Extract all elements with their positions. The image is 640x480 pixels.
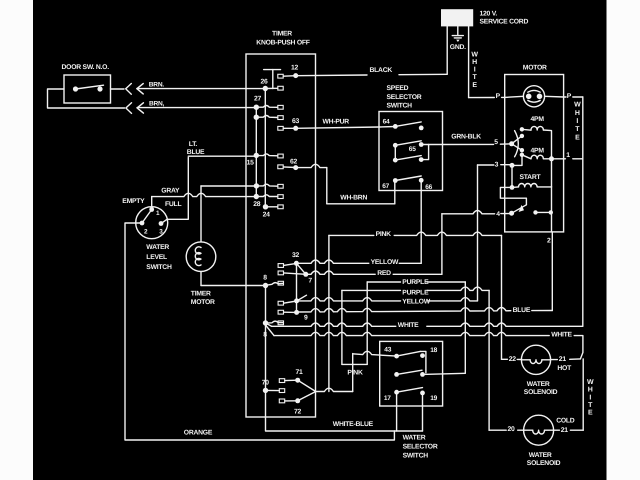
svg-text:67: 67: [382, 183, 389, 190]
wire 22 stub2: [517, 358, 521, 360]
svg-text:W: W: [574, 102, 581, 109]
wire dot-f to WHITE row1: [266, 323, 272, 326]
door switch contact right: [97, 86, 102, 91]
svg-text:W: W: [471, 51, 478, 58]
svg-text:4PM: 4PM: [531, 148, 545, 155]
svg-text:21: 21: [561, 427, 569, 434]
timer contact 63 dot: [293, 126, 298, 131]
water level contact 3: [159, 221, 164, 226]
svg-text:YELLOW: YELLOW: [402, 299, 430, 306]
svg-text:TIMER: TIMER: [272, 31, 292, 38]
contact square 9: [278, 310, 283, 314]
wire PINK riser: [328, 235, 330, 391]
svg-text:SERVICE CORD: SERVICE CORD: [480, 19, 529, 26]
wire motor4 row seg2: [501, 213, 512, 215]
wire door switch left loop: [48, 89, 125, 108]
wire start right down to switch: [551, 187, 553, 213]
wire PURPLE2 drop to solenoid 20: [488, 290, 490, 430]
svg-text:H: H: [472, 59, 477, 66]
svg-text:BRN,: BRN,: [149, 101, 165, 108]
wire dot1 down to start right: [551, 159, 553, 187]
wire timer motor top riser: [200, 186, 202, 242]
svg-text:17: 17: [384, 395, 391, 402]
wire square63 to dot63: [283, 127, 296, 129]
wire start switch loop: [500, 187, 526, 204]
wire square72 to dot72: [285, 400, 298, 402]
svg-text:120 V.: 120 V.: [480, 10, 498, 17]
svg-text:24: 24: [263, 212, 271, 219]
coil 4PM lower: [531, 155, 543, 159]
timer contact 8 dot: [263, 283, 268, 288]
motor box: [505, 75, 564, 232]
arm 27 to square: [256, 106, 278, 108]
timer contact 72 dot: [295, 398, 300, 403]
wsel blade top: [397, 351, 421, 356]
wire contact1 riser: [151, 197, 153, 208]
speed contact 64 dot: [393, 124, 398, 129]
connector chevron upper: [126, 84, 132, 95]
speed right dot 3: [419, 157, 424, 162]
wire white riser hot21 to cold21: [582, 359, 584, 430]
svg-text:LEVEL: LEVEL: [146, 254, 167, 261]
wire square32 to dot32: [284, 263, 297, 265]
wire RED row from 7: [306, 271, 375, 274]
wire square12 to dot12: [283, 75, 296, 78]
svg-text:SWITCH: SWITCH: [403, 453, 429, 460]
wire YELLOW row 32 to speed 66: [296, 260, 368, 263]
wire 62 row: [296, 164, 327, 167]
svg-text:1: 1: [566, 152, 570, 159]
contact square 32: [278, 264, 283, 268]
speed left interconnect: [394, 145, 396, 160]
svg-text:WH-BRN: WH-BRN: [340, 195, 367, 202]
motor brush left: [526, 94, 532, 100]
wire 5 to upper contact: [512, 136, 522, 144]
svg-text:FULL: FULL: [165, 201, 181, 208]
svg-text:RED: RED: [377, 270, 391, 277]
wire 43 row: [353, 351, 397, 356]
wire 21 cold stub1: [554, 429, 560, 431]
wire PURPLE1 drop: [464, 282, 466, 373]
speed blade 2: [395, 141, 421, 146]
wire timer motor to timer 8: [201, 285, 266, 287]
wire dot-f slant to WHITE row2: [266, 325, 275, 336]
wire motor 1 row seg1: [552, 158, 566, 160]
wire WHITE riser to motor P right: [582, 97, 584, 326]
svg-text:64: 64: [383, 119, 390, 126]
svg-text:WHITE: WHITE: [398, 322, 419, 329]
arm c to square: [256, 184, 278, 186]
timer contact 70 dot: [263, 388, 268, 393]
hot coil lead right: [542, 359, 551, 361]
wire GRN-BLK seg2: [500, 143, 511, 145]
svg-text:43: 43: [384, 347, 391, 354]
wire YELLOW2 riser to motor 3: [477, 165, 479, 301]
svg-text:I: I: [474, 67, 476, 74]
motor start sw lower dot: [520, 148, 524, 152]
svg-text:9: 9: [304, 315, 308, 322]
svg-text:PINK: PINK: [376, 231, 392, 238]
timer contact 7 dot: [303, 272, 308, 277]
page right white margin: [607, 0, 640, 480]
wire PURPLE1 row: [367, 281, 400, 283]
ground triangle: [456, 40, 459, 42]
timer motor coil: [195, 247, 201, 266]
contact square 27: [278, 105, 283, 109]
svg-text:SPEED: SPEED: [387, 85, 409, 92]
arm f to square f: [266, 321, 284, 323]
svg-text:72: 72: [294, 409, 302, 416]
wire BLUE row 9? to motor 2: [297, 308, 511, 313]
ground bar 2: [454, 37, 461, 39]
timer motor circle: [186, 242, 216, 272]
cold coil lead left: [524, 429, 533, 431]
svg-text:8: 8: [263, 275, 267, 282]
contact square c: [278, 184, 283, 188]
timer knob T bar: [264, 69, 281, 71]
wire YELLOW2 row 9->motor3: [297, 298, 401, 301]
svg-text:5: 5: [494, 139, 498, 146]
speed contact 66 dot: [419, 178, 424, 183]
timer contact 12 dot: [293, 73, 298, 78]
svg-text:WATER: WATER: [527, 381, 550, 388]
speed left dot 3: [393, 158, 398, 163]
arm b to square: [256, 116, 278, 118]
wire wsel 17 drop: [396, 392, 398, 431]
wire riser to speed 67: [394, 181, 396, 204]
svg-text:P: P: [567, 93, 572, 100]
wire 3 down to start coil dot: [511, 165, 513, 187]
ground stem: [457, 26, 459, 35]
contact square 12: [278, 74, 283, 78]
cold coil lead right: [545, 429, 554, 431]
speed contact 65 dot: [419, 142, 424, 147]
contact square f: [278, 321, 283, 325]
svg-text:32: 32: [292, 252, 300, 259]
svg-text:LT.: LT.: [189, 141, 198, 148]
water level contact 1: [149, 207, 154, 212]
motor brush right: [537, 94, 543, 100]
wire 21 hot stub2: [570, 358, 581, 360]
svg-text:66: 66: [425, 184, 432, 191]
water selector switch box: [380, 341, 443, 406]
svg-text:SWITCH: SWITCH: [146, 264, 172, 271]
wsel blade mid: [397, 370, 422, 374]
wire 21 hot stub1: [551, 359, 558, 361]
speed right dot 1: [419, 126, 424, 131]
start switch dot a: [533, 210, 537, 214]
cold coil loops: [533, 430, 545, 434]
svg-text:T: T: [588, 402, 593, 409]
wire BLUE riser to motor 2: [551, 232, 553, 311]
wsel blade bottom: [397, 388, 423, 393]
wire timer motor to timer dot c: [201, 185, 257, 187]
svg-text:W: W: [587, 379, 594, 386]
contact square 7: [278, 271, 283, 275]
svg-text:MOTOR: MOTOR: [191, 299, 215, 306]
start switch blade: [512, 205, 527, 213]
connector arrow lower: [137, 103, 143, 113]
wire square-e dot-e blade: [284, 295, 307, 303]
svg-text:18: 18: [430, 347, 437, 354]
water solenoid COLD circle: [524, 415, 554, 445]
timer contact 71 dot: [295, 378, 300, 383]
wire motor3 row seg2: [501, 164, 512, 166]
connector arrow upper: [137, 84, 143, 94]
timer contact 32 dot: [294, 261, 299, 266]
start coil left dot: [510, 185, 515, 190]
svg-text:GRAY: GRAY: [161, 188, 180, 195]
timer bus line 2 upper: [264, 89, 266, 207]
svg-text:E: E: [575, 134, 580, 141]
contact square 24: [278, 205, 283, 209]
hot coil lead left: [522, 359, 531, 361]
svg-text:15: 15: [247, 160, 255, 167]
wire bus2 down to WHITE-BLUE row A: [266, 390, 423, 431]
wire 20 stub2: [518, 429, 524, 431]
speed blade 1: [395, 122, 421, 127]
svg-text:PURPLE: PURPLE: [402, 289, 429, 296]
svg-text:SWITCH: SWITCH: [387, 103, 413, 110]
wire square71 to dot71: [285, 379, 298, 381]
contact square d: [278, 281, 283, 285]
wire motor3 row seg1: [478, 164, 494, 166]
svg-text:H: H: [575, 110, 580, 117]
wire riser speed 66: [420, 180, 422, 263]
wire wsel 19 drop: [422, 393, 424, 431]
start switch dot b: [549, 210, 553, 214]
svg-text:BRN.: BRN.: [149, 82, 165, 89]
wire plug left leg (BLACK) drop: [446, 26, 448, 74]
svg-text:26: 26: [260, 79, 268, 86]
contact square 28: [278, 195, 283, 199]
speed blade 4: [395, 176, 421, 181]
blade 71 junction: [298, 380, 316, 391]
wire square9 to dot9: [284, 311, 297, 313]
svg-text:GND.: GND.: [450, 44, 466, 51]
svg-text:COLD: COLD: [556, 418, 575, 425]
svg-text:ORANGE: ORANGE: [184, 430, 213, 437]
wire to start coil: [512, 186, 519, 189]
wire WHITE row1: [272, 323, 396, 326]
coil START: [519, 183, 538, 186]
svg-text:DOOR SW. N.O.: DOOR SW. N.O.: [62, 64, 110, 71]
wsel right mid dot: [420, 372, 425, 377]
wsel left mid dot: [394, 372, 399, 377]
contact square b: [278, 116, 283, 120]
stair horizontal D: [342, 363, 367, 365]
wire square62 to dot62: [283, 166, 296, 169]
wire 71/72 row to pink riser: [316, 388, 353, 391]
wire upper coil left: [522, 128, 531, 131]
wire timer motor bottom riser: [200, 272, 202, 285]
timer contact 26 dot: [263, 86, 268, 91]
speed left dot 2: [393, 143, 398, 148]
water level contact 2: [140, 221, 145, 226]
wire GRAY to timer: [152, 193, 257, 196]
speed selector switch box: [379, 112, 443, 191]
wsel contact 43 dot: [394, 354, 399, 359]
wire BRN lower to timer 27: [137, 107, 256, 109]
timer knob T stem: [272, 70, 274, 89]
wire P right stub1: [564, 96, 566, 98]
svg-text:I: I: [589, 394, 591, 401]
contact square e: [278, 301, 283, 305]
svg-text:WHITE: WHITE: [551, 332, 572, 339]
svg-text:20: 20: [508, 426, 516, 433]
svg-text:YELLOW: YELLOW: [371, 259, 399, 266]
svg-text:BLACK: BLACK: [370, 67, 393, 74]
svg-text:21: 21: [559, 356, 567, 363]
wire LT.BLUE row to timer 15: [188, 155, 256, 157]
motor contact 3 dot: [510, 163, 515, 168]
wire WH-PUR 63 to speed 64: [296, 127, 396, 129]
svg-text:WATER: WATER: [403, 435, 426, 442]
motor arc bottom: [528, 100, 540, 102]
motor winding lower-left dot: [520, 153, 524, 157]
svg-text:12: 12: [291, 65, 299, 72]
wire LT.BLUE down to contact 3: [161, 158, 188, 224]
wire WH-BRN row: [327, 203, 395, 205]
svg-text:KNOB-PUSH OFF: KNOB-PUSH OFF: [256, 40, 309, 47]
wire motor 2 inside drop: [551, 212, 553, 232]
svg-text:SOLENOID: SOLENOID: [527, 460, 561, 467]
svg-text:HOT: HOT: [557, 365, 572, 372]
wsel contact 19 dot: [420, 391, 425, 396]
wire RED riser to motor 4 row: [441, 214, 443, 274]
contact square 71: [279, 379, 284, 383]
wire 22 stub1: [502, 358, 508, 360]
start switch arrow: [519, 205, 524, 212]
motor arc top: [528, 90, 540, 92]
motor contact 5 dot: [509, 141, 514, 146]
speed contact 67 dot: [393, 178, 398, 183]
wire BRN upper to timer 26: [137, 88, 265, 90]
svg-text:WATER: WATER: [146, 244, 169, 251]
wire 26 to T stem and square: [265, 87, 278, 89]
timer contact 28 dot: [254, 194, 259, 199]
timer contact 15 dot: [254, 153, 259, 158]
motor armature circle: [523, 86, 544, 107]
coil 4PM upper: [531, 126, 543, 130]
wsel interconnect: [420, 351, 426, 372]
svg-text:PURPLE: PURPLE: [402, 279, 429, 286]
door switch blade: [76, 85, 104, 89]
water level blade 2-1: [142, 210, 152, 224]
motor contact 4 dot: [509, 211, 514, 216]
wire WHITE row2: [274, 332, 549, 335]
ground bar 1: [452, 35, 463, 37]
wire dot70 to square70: [266, 389, 280, 391]
stair horizontal B: [342, 289, 367, 291]
svg-text:71: 71: [295, 369, 303, 376]
door switch box: [64, 75, 111, 103]
svg-text:PINK: PINK: [347, 369, 363, 376]
svg-text:TIMER: TIMER: [191, 291, 211, 298]
arm 15 to square: [256, 154, 278, 156]
timer mid dot b: [254, 115, 259, 120]
svg-text:4PM: 4PM: [531, 116, 545, 123]
svg-text:BLUE: BLUE: [187, 149, 205, 156]
contact square 70: [279, 389, 284, 393]
wire dot24 to square24: [266, 206, 278, 208]
svg-text:EMPTY: EMPTY: [122, 198, 145, 205]
svg-text:62: 62: [290, 159, 298, 166]
wire PURPLE2 row: [367, 289, 400, 291]
wsel contact 17 dot: [394, 390, 399, 395]
wire lower coil right to dot1: [543, 158, 551, 160]
timer contact 27 dot: [254, 105, 259, 110]
wire square7 to dot7: [284, 273, 306, 274]
hot coil loops: [530, 360, 542, 364]
timer box: [246, 54, 316, 417]
arm 28 to square: [256, 195, 278, 197]
svg-text:SELECTOR: SELECTOR: [387, 94, 422, 101]
wire 3 to lower coil riser: [512, 155, 522, 166]
riser 43/71: [352, 354, 354, 392]
svg-text:GRN-BLK: GRN-BLK: [451, 134, 481, 141]
door switch contact left: [73, 86, 78, 91]
connector chevron lower: [126, 103, 132, 114]
timer dot e: [294, 298, 299, 303]
water solenoid HOT circle: [521, 345, 550, 374]
timer dot f: [263, 320, 268, 325]
wire 21 cold stub2: [570, 429, 583, 431]
svg-text:P: P: [496, 93, 501, 100]
water level switch circle: [136, 207, 168, 239]
blade 72 junction: [298, 392, 316, 401]
wsel contact 18 dot: [420, 353, 425, 358]
wire motor4 row seg1: [442, 211, 495, 214]
contact square 26: [278, 86, 283, 90]
wire GRN-BLK seg1: [429, 143, 494, 145]
svg-text:WH-PUR: WH-PUR: [323, 118, 350, 125]
contact square 72: [279, 399, 284, 403]
svg-text:SOLENOID: SOLENOID: [524, 389, 558, 396]
timer bus line 2 lower: [265, 286, 267, 391]
plug P1 120V service cord: [441, 9, 473, 26]
wire motor 1 row seg2: [573, 158, 583, 160]
wire motor circle left: [505, 96, 524, 97]
svg-text:63: 63: [292, 118, 300, 125]
wire P right stub2: [573, 96, 583, 98]
timer contact 62 dot: [293, 165, 298, 170]
svg-text:SELECTOR: SELECTOR: [403, 444, 438, 451]
speed right interconnect: [421, 145, 428, 160]
svg-text:65: 65: [409, 146, 416, 153]
wire PINK drop to solenoid 22: [501, 235, 503, 359]
svg-text:I: I: [576, 118, 578, 125]
contact square 15: [278, 154, 283, 158]
arm 8 to square d: [266, 283, 284, 286]
timer contact 9 dot: [294, 310, 299, 315]
svg-text:19: 19: [430, 395, 437, 402]
wire ORANGE: wl contact2 down and right: [125, 223, 394, 440]
svg-text:22: 22: [509, 356, 517, 363]
svg-text:27: 27: [254, 95, 262, 102]
svg-text:E: E: [588, 410, 593, 417]
svg-text:70: 70: [262, 380, 270, 387]
svg-text:T: T: [575, 126, 580, 133]
wire WHITE row2 corner to 21: [574, 336, 583, 359]
contact square 62: [278, 165, 283, 169]
wire white to motor P left (seg2): [502, 96, 505, 98]
wire wsel mid to purple1 drop: [423, 373, 466, 374]
wire door switch right lead: [111, 88, 125, 90]
wire switch dots: [536, 211, 551, 213]
svg-text:WATER: WATER: [529, 452, 552, 459]
wire BLACK: timer 12 to service cord: [296, 74, 367, 77]
